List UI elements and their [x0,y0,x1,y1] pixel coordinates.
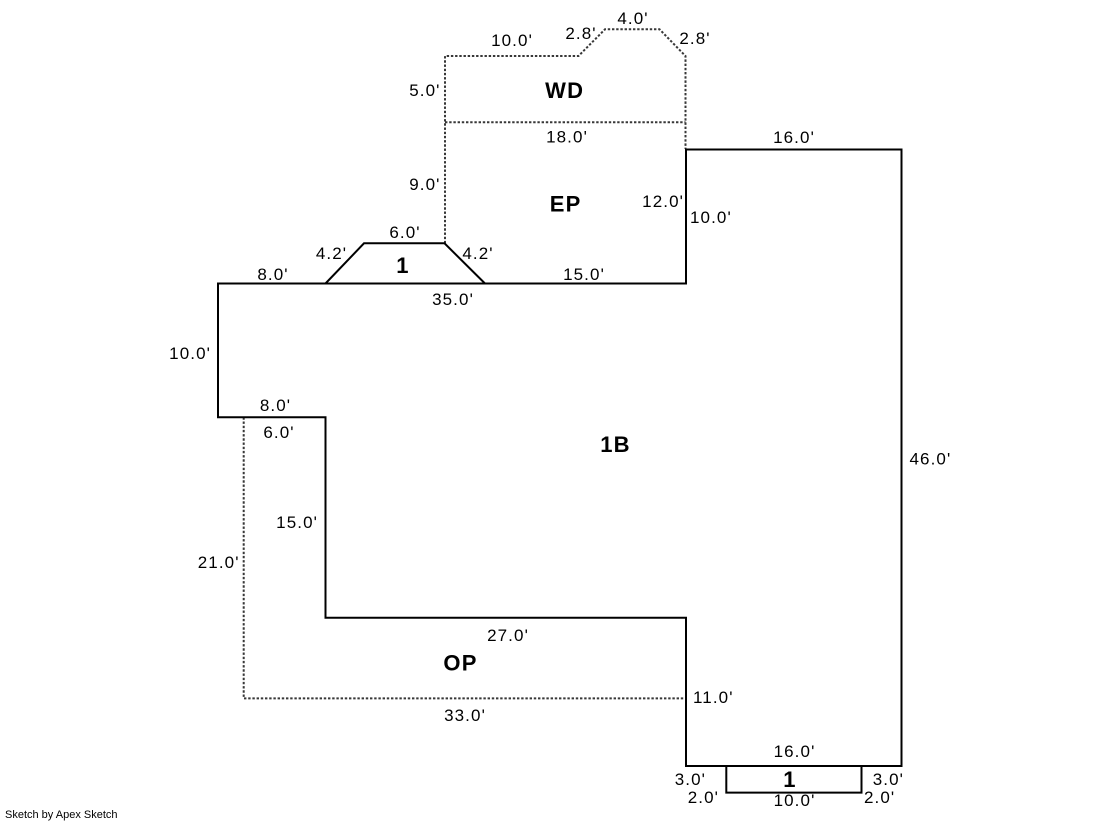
svg-text:33.0': 33.0' [444,706,486,725]
svg-text:1B: 1B [600,432,631,457]
svg-text:8.0': 8.0' [257,265,288,284]
svg-text:15.0': 15.0' [563,265,605,284]
svg-text:16.0': 16.0' [773,128,815,147]
svg-text:8.0': 8.0' [260,396,291,415]
svg-text:9.0': 9.0' [409,175,440,194]
svg-text:EP: EP [550,192,582,217]
svg-text:4.2': 4.2' [316,244,347,263]
svg-text:16.0': 16.0' [774,742,816,761]
svg-text:12.0': 12.0' [642,192,684,211]
svg-text:2.8': 2.8' [679,29,710,48]
svg-text:15.0': 15.0' [276,513,318,532]
svg-text:WD: WD [545,78,584,103]
svg-text:2.8': 2.8' [565,24,596,43]
svg-text:46.0': 46.0' [910,450,952,469]
svg-text:Sketch by Apex Sketch: Sketch by Apex Sketch [5,809,118,821]
svg-text:21.0': 21.0' [198,553,240,572]
svg-text:10.0': 10.0' [774,791,816,810]
svg-text:6.0': 6.0' [263,423,294,442]
svg-text:4.2': 4.2' [462,244,493,263]
svg-text:35.0': 35.0' [432,290,474,309]
svg-text:1: 1 [396,253,409,278]
svg-text:5.0': 5.0' [409,81,440,100]
svg-text:1: 1 [783,767,796,792]
svg-text:11.0': 11.0' [693,688,734,707]
svg-text:18.0': 18.0' [546,128,588,147]
svg-text:4.0': 4.0' [617,9,648,28]
svg-text:OP: OP [443,651,477,676]
svg-text:3.0': 3.0' [873,770,904,789]
svg-text:6.0': 6.0' [389,223,420,242]
svg-text:2.0': 2.0' [688,788,719,807]
svg-text:3.0': 3.0' [675,770,706,789]
svg-text:10.0': 10.0' [169,344,211,363]
svg-text:10.0': 10.0' [690,208,732,227]
svg-text:10.0': 10.0' [491,31,533,50]
svg-text:27.0': 27.0' [487,626,529,645]
svg-text:2.0': 2.0' [864,788,895,807]
